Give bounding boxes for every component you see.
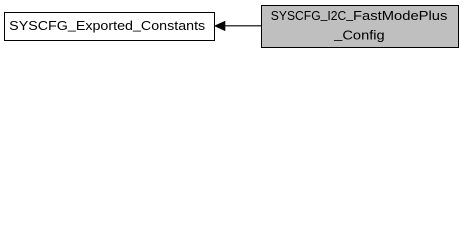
svg-text:FastModePlus: FastModePlus — [353, 8, 448, 23]
arrowhead pointing to left node — [215, 22, 225, 31]
background — [0, 0, 463, 52]
node box SYSCFG_Exported_Constants — [5, 13, 215, 41]
svg-text:SYSCFG_I2C_: SYSCFG_I2C_ — [271, 7, 354, 23]
svg-text:SYSCFG_Exported_Constants: SYSCFG_Exported_Constants — [9, 17, 205, 33]
svg-text:_Config: _Config — [333, 26, 385, 42]
wire edge line — [224, 25, 262, 27]
node box SYSCFG_I2C_FastModePlus_Config (filled) — [262, 6, 459, 48]
